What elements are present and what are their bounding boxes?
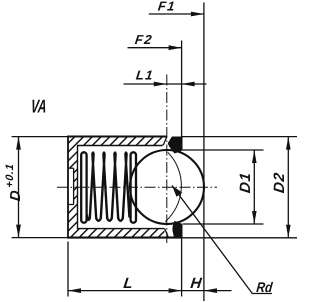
ball pressed-position thin arc <box>165 152 181 221</box>
hatched left wall mid strip <box>74 168 78 204</box>
D2 arrow up <box>286 137 291 150</box>
slot top edge <box>68 167 74 169</box>
D extension line bottom <box>12 237 68 239</box>
slot bottom face <box>73 168 75 204</box>
vertical centerline of ball <box>166 75 168 246</box>
ball <box>130 150 204 224</box>
L1 arrow left-pointing <box>182 82 195 87</box>
spring right end coil <box>131 152 136 222</box>
D arrow up <box>16 137 21 150</box>
F2 extension line upper <box>181 41 183 137</box>
L-H dimension line <box>68 290 232 292</box>
D arrow down <box>16 225 21 238</box>
crimp slope line top <box>163 137 167 146</box>
D2 extension line bottom <box>182 237 297 239</box>
F1 arrow <box>191 12 204 17</box>
F1 extension line <box>203 3 205 302</box>
hatched left wall lower <box>68 205 78 238</box>
H arrow right <box>204 288 217 293</box>
top wall inner edge <box>77 145 163 147</box>
F2/H extension line lower <box>181 238 183 297</box>
L1 dimension line <box>124 83 207 85</box>
svg-text:F1: F1 <box>157 0 177 13</box>
svg-text:D1: D1 <box>237 171 254 194</box>
body right face upper <box>181 137 183 151</box>
D1 extension line top <box>182 149 264 151</box>
bore end face <box>77 146 79 229</box>
D1 arrow down <box>252 211 257 224</box>
D1 dimension line <box>253 150 255 224</box>
crimp lip bottom <box>173 222 181 237</box>
bottom wall inner edge <box>77 228 165 230</box>
D2 dimension line <box>287 137 289 238</box>
F1 dimension line <box>149 13 204 15</box>
spring coils wire <box>87 153 129 221</box>
horizontal centerline <box>57 186 217 188</box>
D2 extension line top <box>182 136 297 138</box>
F2 arrow <box>169 45 182 50</box>
D1 arrow up <box>252 150 257 163</box>
hatched top wall <box>77 137 163 146</box>
D1 extension line bottom <box>183 223 264 225</box>
spring left end coil <box>81 152 86 222</box>
body left face <box>67 136 69 239</box>
slot bottom edge <box>68 204 74 206</box>
svg-text:F2: F2 <box>134 32 154 47</box>
crimp lip top <box>168 137 180 153</box>
D2 arrow down <box>286 225 291 238</box>
Rd leader arrow <box>172 186 182 197</box>
F2 dimension line <box>128 47 182 49</box>
Rd leader line <box>172 186 272 294</box>
L arrow left <box>68 288 81 293</box>
hatched left wall upper <box>68 137 78 169</box>
L/H arrow middle <box>169 288 182 293</box>
svg-text:VA: VA <box>30 97 47 117</box>
body outline bottom edge <box>68 237 182 239</box>
D dimension line <box>18 137 20 238</box>
crimp slope line bottom <box>165 229 169 238</box>
svg-text:D2: D2 <box>271 171 288 194</box>
L1 arrow right-pointing <box>154 82 167 87</box>
svg-text:L1: L1 <box>135 68 155 83</box>
D extension line top <box>12 136 68 138</box>
body outline top edge <box>68 135 167 137</box>
body right face lower <box>181 224 183 238</box>
svg-text:Rd: Rd <box>256 279 274 295</box>
hatched bottom wall <box>77 229 165 238</box>
L extension line left <box>67 242 69 297</box>
